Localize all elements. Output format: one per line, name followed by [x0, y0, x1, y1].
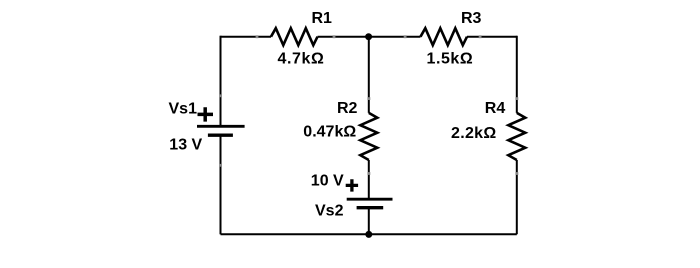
svg-text:10 V: 10 V	[311, 173, 344, 190]
pin tick R2 bottom	[367, 172, 370, 175]
wire middle branch lower	[368, 208, 370, 235]
pin tick R2 top	[367, 97, 370, 100]
svg-text:4.7kΩ: 4.7kΩ	[278, 51, 325, 68]
pin tick R1 right	[333, 35, 336, 38]
svg-text:2.2kΩ: 2.2kΩ	[451, 125, 496, 142]
pin tick R4 top	[515, 97, 518, 100]
pin tick R3 left	[404, 35, 407, 38]
node junction dot bottom	[365, 231, 372, 238]
svg-text:13 V: 13 V	[169, 137, 202, 154]
wire middle branch upper	[368, 37, 370, 113]
plus sign of Vs1	[198, 107, 214, 121]
battery Vs1 positive plate	[197, 125, 245, 128]
pin tick R1 left	[256, 35, 259, 38]
svg-text:Vs1: Vs1	[169, 101, 198, 118]
wire right branch lower	[516, 160, 518, 234]
wire top-left horizontal segment	[221, 36, 272, 38]
battery Vs2 negative plate	[357, 206, 384, 209]
wire left branch lower	[220, 135, 222, 234]
svg-text:R1: R1	[312, 10, 333, 27]
pin tick Vs1 top	[219, 94, 222, 97]
pin tick R3 right	[479, 35, 482, 38]
pin tick R4 bottom	[515, 172, 518, 175]
plus sign of Vs2	[346, 179, 358, 191]
svg-text:0.47kΩ: 0.47kΩ	[303, 124, 356, 141]
svg-text:R4: R4	[485, 100, 506, 117]
wire bottom	[221, 233, 517, 235]
battery Vs2 positive plate	[347, 198, 393, 201]
resistor R4	[508, 113, 525, 160]
wire right branch upper	[516, 36, 518, 113]
resistor R1	[271, 28, 318, 45]
wire R3 to top-right corner	[467, 36, 517, 38]
node junction dot top	[365, 33, 372, 40]
svg-text:R2: R2	[337, 100, 358, 117]
wire middle branch mid	[368, 160, 370, 199]
battery Vs1 negative plate	[208, 133, 233, 136]
resistor R2	[360, 113, 377, 160]
svg-text:R3: R3	[461, 10, 482, 27]
resistor R3	[421, 28, 468, 45]
svg-text:Vs2: Vs2	[315, 202, 344, 219]
svg-text:1.5kΩ: 1.5kΩ	[427, 50, 474, 67]
pin tick Vs1 bottom	[219, 164, 222, 167]
wire left branch upper	[220, 36, 222, 127]
wire between R1 and R3	[318, 36, 421, 38]
